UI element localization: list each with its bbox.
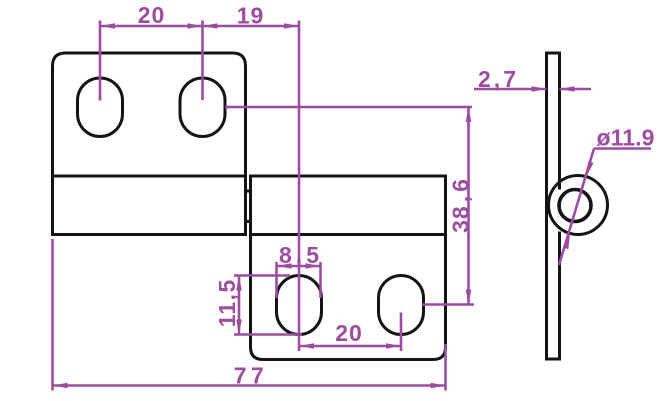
svg-text:2,7: 2,7 xyxy=(478,66,517,92)
dim 8.5: dimension line xyxy=(277,265,321,268)
long extension line hole H3 center vertical xyxy=(298,21,301,352)
extension line hole H2 center xyxy=(201,21,204,101)
dim 11.5: dimension line xyxy=(238,276,241,335)
arrowhead dim8.5 left xyxy=(277,263,292,269)
dim 11.5: bottom extension xyxy=(234,333,302,336)
dim 19 top: dimension line xyxy=(203,25,300,28)
connector from H2 to 38.6 dim xyxy=(225,106,472,109)
dim 11.5: top extension xyxy=(234,274,290,277)
arrowhead dia11.9 lower xyxy=(563,234,570,249)
arrowhead dim2.7 left xyxy=(532,86,547,92)
dim 38.6: dimension line xyxy=(467,107,470,305)
arrowhead dim77 left xyxy=(53,383,68,389)
hole H3 (lower-left slot) xyxy=(277,276,322,335)
arrowhead dim77 right xyxy=(431,383,446,389)
dim 8.5: left extension xyxy=(275,262,278,298)
hole H2 (upper-right slot) xyxy=(180,78,225,137)
arrowhead dim8.5 right xyxy=(306,263,321,269)
arrowhead dim11.5 top xyxy=(236,276,242,291)
left plate outline xyxy=(53,53,246,235)
connector from H4 to 38.6 dim xyxy=(422,303,474,306)
svg-text:8,5: 8,5 xyxy=(279,242,320,268)
arrowhead dim11.5 bottom xyxy=(236,320,242,335)
svg-text:20: 20 xyxy=(138,2,166,28)
svg-text:11,5: 11,5 xyxy=(214,279,240,328)
bend line B across right plate xyxy=(251,233,446,236)
arrowhead dim19 left xyxy=(203,23,218,29)
arrowhead dim20top left xyxy=(100,23,115,29)
arrowhead dim38.6 bottom xyxy=(466,290,472,305)
arrowhead dim38.6 top xyxy=(466,107,472,122)
arrowhead dim20top right xyxy=(188,23,203,29)
dim 77: dimension line xyxy=(53,384,446,387)
svg-text:20: 20 xyxy=(335,320,363,346)
knuckle tick upper xyxy=(246,190,251,193)
extension line hole H1 center xyxy=(99,21,102,101)
dim 8.5: right extension xyxy=(319,262,322,298)
dia 11.9 leader diagonal xyxy=(559,149,594,266)
right plate outline xyxy=(251,176,446,360)
svg-text:77: 77 xyxy=(234,363,269,389)
dim 77: left extension xyxy=(51,239,54,391)
svg-text:38,6: 38,6 xyxy=(448,178,474,233)
dia 11.9 leader underline xyxy=(594,147,651,150)
side view inner circle (hole) xyxy=(559,190,591,222)
dim 20 top: dimension line xyxy=(100,25,203,28)
knuckle tick lower xyxy=(246,220,251,223)
dim 2.7: left tail xyxy=(474,88,547,91)
svg-text:ø11.9: ø11.9 xyxy=(597,125,655,151)
arrowhead dim20bottom right xyxy=(386,343,401,349)
side view plate xyxy=(547,53,560,359)
dim 77: right extension xyxy=(444,344,447,391)
hole H1 (upper-left slot) xyxy=(78,78,123,137)
dim 2.7: right tail xyxy=(560,88,592,91)
svg-text:19: 19 xyxy=(237,3,265,29)
arrowhead dim20bottom left xyxy=(299,343,314,349)
extension line hole H4 center xyxy=(400,313,403,352)
arrowhead dim19 right xyxy=(284,23,299,29)
dim 20 bottom: dimension line xyxy=(299,345,401,348)
hole H4 (lower-right slot) xyxy=(379,276,424,335)
bend line A across left plate xyxy=(53,175,246,178)
arrowhead dim2.7 right xyxy=(560,86,575,92)
side view outer circle (boss) xyxy=(549,176,608,235)
arrowhead dia11.9 upper xyxy=(587,161,594,176)
